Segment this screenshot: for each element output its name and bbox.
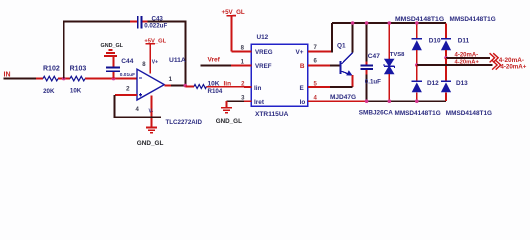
svg-text:Q1: Q1 [337,42,346,49]
node junction collector/rail [351,21,355,25]
svg-text:SMBJ26CA: SMBJ26CA [359,109,393,116]
svg-text:MMSD4148T1G: MMSD4148T1G [395,16,444,23]
wire R103 to op-amp inverting input [96,78,137,80]
svg-text:C47: C47 [368,53,380,60]
svg-text:V-: V- [149,109,154,115]
svg-text:TVS8: TVS8 [390,52,405,58]
connector off-page 4-20mA- [490,53,524,64]
svg-text:TLC2272AID: TLC2272AID [166,119,203,126]
node junction TVS top [388,21,392,25]
svg-text:GND_GL: GND_GL [101,43,124,49]
svg-text:10K: 10K [70,88,82,95]
wire feedback to output column [148,22,186,86]
wire feedback loop up and right [64,22,130,79]
ground GND_GL at pin 3 [216,108,242,125]
svg-text:MMSD4148T1G: MMSD4148T1G [450,16,496,23]
part label MMSD4148T1G bottom left [395,110,441,117]
wire op-amp non-inverting input loop to ground [115,95,162,117]
svg-text:4-20mA+: 4-20mA+ [455,60,480,66]
wire pin 7 V+ to top rail [308,23,332,51]
op-amp power pin 4 and ground GND_GL [136,96,164,147]
svg-text:Vref: Vref [208,56,221,63]
svg-text:D12: D12 [427,80,439,87]
node junction TVS bottom [388,99,392,103]
svg-text:V+: V+ [152,59,158,65]
capacitor C44 [106,56,135,78]
svg-text:D13: D13 [456,80,468,87]
svg-text:1: 1 [169,76,173,83]
svg-text:E: E [300,85,305,92]
wire +5V to pin 8 VREG [232,50,252,52]
node IN net label [4,71,11,78]
svg-text:IN: IN [4,71,11,78]
wire IN input horizontal [4,78,37,80]
svg-text:XTR115UA: XTR115UA [255,111,289,118]
capacitor C47 [360,23,381,101]
transistor Q1 [330,42,356,101]
node junction op-amp output / feedback / R104 [184,84,188,88]
node junction C47 bottom [365,99,369,103]
svg-text:4-20mA-: 4-20mA- [455,52,479,58]
svg-text:Iin: Iin [254,85,262,92]
wire top rail [332,22,446,24]
svg-text:U12: U12 [257,34,269,41]
svg-text:6: 6 [314,59,318,65]
svg-text:MMSD4148T1G: MMSD4148T1G [446,110,492,117]
node junction D10 top rail [415,21,419,25]
wire Vref net [201,56,252,65]
svg-text:GND_GL: GND_GL [216,118,242,125]
svg-text:+5V_GL: +5V_GL [222,9,245,16]
svg-text:VREG: VREG [255,49,273,56]
wire op-amp output [164,85,185,87]
node junction 4-20mA+ tap [415,63,419,67]
svg-text:20K: 20K [43,88,55,95]
svg-text:VREF: VREF [255,63,272,70]
svg-text:8: 8 [142,62,146,68]
svg-text:V+: V+ [296,49,304,56]
svg-text:Iin: Iin [224,81,232,88]
op-amp U12 XTR115UA chip [241,34,318,118]
part label MMSD4148T1G top right [450,16,496,23]
part label MMSD4148T1G top left [395,16,444,23]
wire pin 3 Iret to ground [227,101,245,107]
connector off-page 4-20mA+ [492,60,527,70]
svg-text:U11A: U11A [169,57,186,64]
node junction C47 top [365,21,369,25]
svg-text:7: 7 [314,45,318,51]
wire 4-20mA- net [446,52,490,58]
svg-text:D10: D10 [429,38,441,45]
capacitor C43 [130,15,167,29]
wire Q1 collector to rail [352,23,354,53]
svg-text:4: 4 [136,107,140,113]
svg-text:0.022uF: 0.022uF [144,22,167,29]
node junction D12 bottom rail [415,99,419,103]
wire D10 to D12 column [416,65,418,81]
node junction R102/R103/feedback [62,77,66,81]
svg-text:Io: Io [300,99,306,106]
svg-text:+5V_GL: +5V_GL [144,39,166,45]
svg-text:GND_GL: GND_GL [137,140,164,147]
node Iin net label [224,81,232,88]
wire 4-20mA+ net [417,60,493,66]
power +5V_GL top [222,9,245,51]
TVS diode TVS8 [359,23,405,116]
wire Q1 emitter to pin 5 E [308,75,353,87]
wire bottom rail pin 4 Io [308,100,446,102]
op-amp U11A [126,57,202,126]
op-amp power pin 8 and +5V_GL [142,39,166,74]
resistor R103 [64,66,96,95]
wire D11 to D13 column [445,58,447,81]
diode D12 [412,80,439,101]
part label MMSD4148T1G bottom right [446,110,492,117]
diode D13 [441,80,468,101]
resistor R102 [36,66,64,96]
wire pin 6 B to Q1 base [316,65,340,67]
node junction C44 tap [112,77,116,81]
svg-text:MJD47G: MJD47G [330,94,356,101]
svg-text:R104: R104 [208,88,223,95]
svg-text:R102: R102 [43,66,60,73]
svg-text:2: 2 [126,85,130,92]
svg-text:4-20mA+: 4-20mA+ [500,63,526,70]
diode D11 [441,24,470,58]
svg-text:0.01uF: 0.01uF [120,72,135,78]
diode D10 [412,23,441,65]
resistor R104 [185,81,244,95]
svg-text:Iret: Iret [254,99,265,106]
node junction 4-20mA- tap [444,56,448,60]
svg-text:10K: 10K [208,81,220,88]
svg-text:R103: R103 [70,66,87,73]
svg-text:MMSD4148T1G: MMSD4148T1G [395,110,441,117]
svg-text:0.1uF: 0.1uF [365,78,381,85]
svg-text:B: B [300,63,305,70]
ground GND_GL above C44 [101,43,124,56]
svg-text:D11: D11 [458,38,470,45]
svg-text:C44: C44 [121,58,133,65]
